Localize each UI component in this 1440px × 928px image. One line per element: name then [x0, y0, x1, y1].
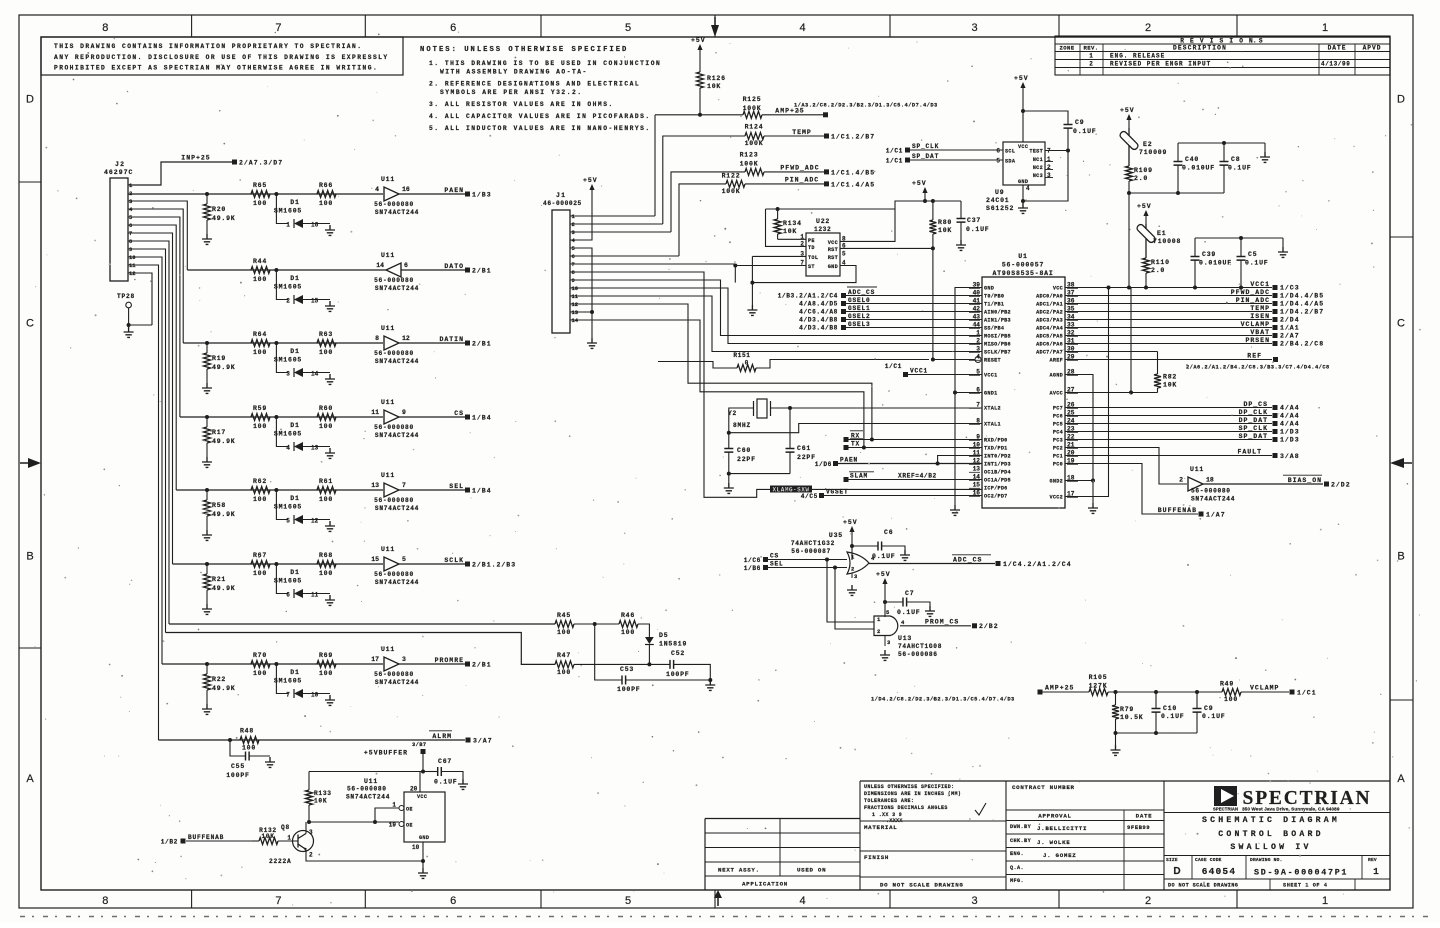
svg-text:3: 3 — [976, 346, 980, 353]
svg-text:10K: 10K — [783, 228, 797, 235]
net SLAM to U1 pin14 — [844, 477, 849, 482]
svg-text:0.1UF: 0.1UF — [434, 779, 458, 786]
svg-text:56-000080: 56-000080 — [374, 571, 414, 578]
svg-text:0.1UF: 0.1UF — [1228, 165, 1252, 172]
svg-text:1. THIS DRAWING IS TO BE USED: 1. THIS DRAWING IS TO BE USED IN CONJUNC… — [429, 60, 661, 67]
svg-text:127K: 127K — [1089, 683, 1108, 690]
net BIAS_ON off-page — [1203, 483, 1323, 485]
svg-text:C: C — [1397, 318, 1405, 330]
svg-text:1/C4.2/A1.2/C4: 1/C4.2/A1.2/C4 — [1003, 561, 1072, 568]
svg-text:3: 3 — [402, 656, 406, 663]
ground R58 — [202, 530, 212, 540]
svg-text:SWALLOW IV: SWALLOW IV — [1230, 843, 1311, 852]
svg-text:J. GOMEZ: J. GOMEZ — [1043, 852, 1076, 859]
svg-text:1/C3: 1/C3 — [1280, 285, 1300, 292]
net VCC1 off-page right — [1065, 287, 1272, 289]
svg-text:PFWD_ADC: PFWD_ADC — [780, 165, 819, 172]
svg-text:2/B1: 2/B1 — [472, 662, 492, 669]
svg-text:56-000087: 56-000087 — [791, 548, 831, 555]
svg-text:PROMRE: PROMRE — [435, 657, 464, 664]
ground C67 — [458, 779, 468, 789]
svg-text:R63: R63 — [319, 331, 333, 338]
net SP_DAT off-page right — [1065, 439, 1272, 441]
svg-text:4/A4: 4/A4 — [1280, 421, 1300, 428]
svg-text:74AHCT1G32: 74AHCT1G32 — [791, 540, 835, 547]
svg-text:R67: R67 — [253, 552, 267, 559]
wire J1 pin10 to MISO — [570, 288, 982, 344]
resistor R63 series — [317, 340, 336, 347]
svg-text:DRAWING NO.: DRAWING NO. — [1250, 857, 1283, 863]
diode D1 4/13 — [274, 415, 278, 419]
wire to R45 — [169, 623, 555, 625]
capacitor C52 — [670, 660, 674, 669]
svg-text:1/B4: 1/B4 — [472, 415, 492, 422]
ground R21 — [202, 604, 212, 614]
wire pullup rail — [698, 113, 702, 117]
svg-text:13: 13 — [572, 309, 579, 316]
svg-text:2: 2 — [309, 852, 313, 859]
diode D1 5/12 — [274, 488, 278, 492]
svg-text:56-000080: 56-000080 — [374, 424, 414, 431]
svg-text:100: 100 — [253, 200, 267, 207]
net XLAMG strikethrough label on ICP wire — [768, 488, 982, 490]
svg-text:100: 100 — [242, 745, 256, 752]
resistor R122 — [679, 184, 726, 256]
capacitor C8 — [1223, 143, 1225, 161]
title application table — [779, 819, 781, 877]
svg-text:16: 16 — [311, 222, 319, 229]
wire XTAL2 net — [771, 407, 983, 409]
svg-text:0.1UF: 0.1UF — [1073, 128, 1097, 135]
wire AVCC riser to VCC rail — [1130, 288, 1132, 393]
svg-text:6: 6 — [286, 592, 290, 599]
ground C39/C5 — [1282, 238, 1284, 247]
svg-text:DO NOT SCALE DRAWING: DO NOT SCALE DRAWING — [880, 882, 964, 889]
svg-text:9: 9 — [572, 277, 575, 284]
wire U9 TEST pin7 — [1045, 150, 1068, 152]
svg-text:AMP+25: AMP+25 — [775, 108, 804, 115]
svg-text:2.0: 2.0 — [1134, 175, 1148, 182]
svg-text:R49: R49 — [1220, 681, 1234, 688]
svg-text:24C01: 24C01 — [986, 197, 1010, 204]
svg-text:+5V: +5V — [912, 180, 927, 187]
svg-text:1/C1.2/B7: 1/C1.2/B7 — [831, 134, 875, 141]
wire C40/C8 top rail — [1178, 142, 1265, 144]
capacitor C9 filter — [1196, 692, 1198, 708]
svg-text:10.5K: 10.5K — [1120, 714, 1144, 721]
svg-text:TX: TX — [851, 441, 860, 448]
svg-text:12: 12 — [129, 270, 136, 277]
svg-text:U11: U11 — [381, 546, 395, 553]
wire C53 branch — [595, 624, 622, 680]
svg-text:100: 100 — [253, 496, 267, 503]
svg-text:SP_CLK: SP_CLK — [1239, 425, 1268, 432]
svg-text:11: 11 — [129, 262, 136, 269]
svg-text:2222A: 2222A — [269, 858, 292, 865]
svg-text:100K: 100K — [722, 188, 741, 195]
svg-text:3: 3 — [309, 829, 313, 836]
svg-text:A: A — [1397, 773, 1405, 785]
wire buffer row SCLK — [173, 563, 384, 565]
svg-text:DO NOT SCALE DRAWING: DO NOT SCALE DRAWING — [1168, 883, 1238, 889]
svg-text:D1: D1 — [290, 422, 299, 429]
svg-text:2: 2 — [877, 628, 880, 635]
net DP_CS off-page right — [1065, 407, 1272, 409]
svg-text:SP_CLK: SP_CLK — [912, 143, 939, 150]
resistor R67 series — [251, 561, 270, 568]
wire AGND pin28 — [1065, 375, 1093, 481]
svg-text:ZONE: ZONE — [1059, 45, 1074, 52]
svg-text:R64: R64 — [253, 331, 267, 338]
resistor R65 series — [251, 191, 270, 198]
svg-text:ADC_CS: ADC_CS — [953, 557, 982, 564]
svg-text:ALRM: ALRM — [432, 733, 452, 740]
svg-text:13: 13 — [311, 445, 319, 452]
svg-text:1: 1 — [1322, 22, 1328, 34]
capacitor C9 bypass — [1023, 111, 1068, 124]
svg-text:J.BELLICITTI: J.BELLICITTI — [1037, 825, 1087, 832]
net ISEN off-page right — [1065, 319, 1272, 321]
net ADC_CS output — [869, 563, 995, 565]
resistor R66 series — [317, 191, 336, 198]
svg-text:J1: J1 — [556, 192, 566, 199]
svg-text:R46: R46 — [621, 612, 635, 619]
svg-text:SM1605: SM1605 — [274, 284, 302, 291]
capacitor C40 — [1177, 143, 1179, 161]
svg-text:R E V I S I O N S: R E V I S I O N S — [1180, 38, 1264, 45]
svg-text:5: 5 — [625, 22, 631, 34]
svg-text:U11: U11 — [381, 325, 395, 332]
svg-text:PIN_ADC: PIN_ADC — [785, 177, 819, 184]
ground D1 — [325, 374, 335, 384]
svg-text:R109: R109 — [1134, 167, 1153, 174]
svg-text:TXD/PD1: TXD/PD1 — [984, 446, 1008, 452]
U9 NC pin stubs — [1045, 161, 1053, 163]
svg-text:49.9K: 49.9K — [212, 438, 236, 445]
ground D1 — [325, 448, 335, 458]
svg-text:+5V: +5V — [1120, 107, 1135, 114]
wire ADC7 row to R82 — [1065, 351, 1158, 353]
svg-text:R82: R82 — [1163, 374, 1177, 381]
svg-text:49.9K: 49.9K — [212, 511, 236, 518]
title number row — [1164, 855, 1390, 857]
svg-text:TOLERANCES ARE:: TOLERANCES ARE: — [864, 798, 914, 804]
svg-text:ADC7/PA7: ADC7/PA7 — [1036, 350, 1063, 356]
svg-text:OC1B/PD4: OC1B/PD4 — [984, 470, 1011, 476]
wire rail to R80/C37 — [895, 201, 961, 209]
svg-text:TEST: TEST — [1029, 149, 1043, 155]
svg-text:100: 100 — [253, 423, 267, 430]
ground filter — [1115, 733, 1117, 745]
svg-text:+5V: +5V — [583, 177, 598, 184]
svg-text:56-000080: 56-000080 — [374, 671, 414, 678]
svg-text:2/A6.2/A1.2/B4.2/C8.3/B3.3/C7.: 2/A6.2/A1.2/B4.2/C8.3/B3.3/C7.4/D4.4/C8 — [1186, 365, 1330, 371]
svg-text:ADC0/PA0: ADC0/PA0 — [1036, 294, 1063, 300]
wire U22 RST pin6 — [840, 247, 933, 249]
svg-text:T0/PB0: T0/PB0 — [984, 294, 1004, 300]
wire J2 pin6 fanout — [128, 225, 176, 490]
wire RESET net — [932, 248, 934, 359]
svg-text:TEMP: TEMP — [1250, 305, 1270, 312]
svg-text:2/B4.2/C8: 2/B4.2/C8 — [1280, 341, 1324, 348]
svg-text:B: B — [26, 551, 33, 563]
wire J1 pin1 to R125 rail — [570, 215, 655, 217]
svg-text:74AHCT1G08: 74AHCT1G08 — [898, 643, 942, 650]
svg-text:R61: R61 — [319, 478, 333, 485]
svg-text:C53: C53 — [620, 666, 634, 673]
net FAULT off-page right — [1065, 455, 1272, 457]
buffer U11 SEL — [384, 483, 399, 497]
svg-text:R58: R58 — [212, 502, 226, 509]
wire SEL to U13 input2 — [835, 568, 874, 630]
or-gate U35 — [847, 552, 869, 574]
svg-text:2/A7: 2/A7 — [1280, 333, 1300, 340]
svg-text:1/B6: 1/B6 — [744, 565, 761, 572]
svg-text:46-000025: 46-000025 — [543, 200, 582, 207]
net AMP+25 input — [1038, 690, 1043, 695]
svg-text:ENG. RELEASE: ENG. RELEASE — [1110, 53, 1165, 60]
resistor R70 series — [251, 661, 270, 668]
crystal Y2 8MHZ — [757, 399, 767, 418]
svg-text:OC1A/PD5: OC1A/PD5 — [984, 478, 1011, 484]
wire U1 GND pin39 — [955, 288, 982, 506]
scan artifact bottom edge — [20, 916, 1432, 918]
ground C37 — [956, 240, 966, 250]
svg-text:R79: R79 — [1120, 706, 1134, 713]
svg-text:13: 13 — [973, 466, 981, 473]
svg-text:R70: R70 — [253, 652, 267, 659]
svg-text:100: 100 — [319, 349, 333, 356]
svg-text:49.9K: 49.9K — [212, 585, 236, 592]
wire J1 pin2 to R124 — [570, 223, 663, 225]
svg-text:SIZE: SIZE — [1166, 857, 1178, 863]
svg-text:0.010UF: 0.010UF — [1199, 260, 1232, 267]
svg-text:VCC: VCC — [828, 240, 838, 246]
svg-text:SN74ACT244: SN74ACT244 — [375, 679, 419, 686]
resistor R46 — [619, 621, 638, 628]
svg-text:R105: R105 — [1089, 674, 1108, 681]
svg-text:10K: 10K — [707, 83, 721, 90]
svg-text:4/A8.4/D5: 4/A8.4/D5 — [799, 301, 838, 308]
wire Q8 collector — [305, 822, 307, 834]
svg-text:R47: R47 — [557, 652, 571, 659]
buffer U11 SCLK — [384, 557, 399, 571]
wire J2 pin8 fanout — [128, 241, 169, 624]
ground C55 — [265, 757, 275, 767]
capacitor C10 — [1155, 692, 1157, 708]
svg-text:+5V: +5V — [1014, 75, 1029, 82]
svg-text:SM1605: SM1605 — [274, 208, 302, 215]
svg-text:INT1/PD3: INT1/PD3 — [984, 462, 1011, 468]
svg-text:15: 15 — [311, 298, 319, 305]
resistor R133 — [308, 772, 310, 791]
wire J2 pin7 fanout — [128, 233, 173, 564]
svg-text:1/C1.4/B5: 1/C1.4/B5 — [831, 169, 875, 176]
svg-text:1/C1: 1/C1 — [885, 363, 902, 370]
svg-text:SHEET 1 OF 4: SHEET 1 OF 4 — [1283, 883, 1328, 889]
svg-text:56-000080: 56-000080 — [374, 497, 414, 504]
buffer U11 PAEN — [384, 187, 399, 201]
wire J1 pin7 to U22 ST — [570, 263, 735, 265]
svg-text:R48: R48 — [240, 728, 254, 735]
wire C60/C61 ground rail — [729, 473, 790, 475]
svg-text:100: 100 — [1224, 696, 1238, 703]
svg-text:ISEN: ISEN — [1250, 313, 1270, 320]
svg-text:100PF: 100PF — [617, 686, 641, 693]
svg-text:R126: R126 — [707, 75, 726, 82]
wire J1 pin11 to SCLK — [570, 296, 982, 352]
wire INT0 stub — [938, 456, 982, 464]
U1 RESET pin circle — [975, 357, 981, 363]
svg-text:SN74ACT244: SN74ACT244 — [375, 432, 419, 439]
svg-text:2/B1: 2/B1 — [472, 341, 492, 348]
svg-text:7: 7 — [572, 261, 575, 268]
svg-text:56-000080: 56-000080 — [374, 201, 414, 208]
resistor R22 pulldown — [205, 662, 209, 666]
svg-text:SP_DAT: SP_DAT — [912, 153, 939, 160]
svg-text:6: 6 — [404, 262, 408, 269]
svg-text:+5V: +5V — [1137, 203, 1152, 210]
svg-text:J. WOLKE: J. WOLKE — [1037, 839, 1070, 846]
svg-text:7: 7 — [129, 230, 132, 237]
capacitor C7 — [884, 592, 886, 617]
svg-text:49.9K: 49.9K — [212, 364, 236, 371]
svg-text:7: 7 — [286, 692, 290, 699]
svg-text:2: 2 — [1089, 61, 1093, 68]
svg-text:100PF: 100PF — [226, 772, 250, 779]
wire U22 GND pin4 — [752, 256, 856, 282]
svg-text:PC2: PC2 — [1053, 446, 1063, 452]
svg-text:1: 1 — [286, 222, 290, 229]
svg-text:PAEN: PAEN — [444, 187, 464, 194]
net PIN_ADC off-page right — [1065, 303, 1272, 305]
svg-text:AIN0/PB2: AIN0/PB2 — [984, 310, 1011, 316]
svg-text:7: 7 — [402, 482, 406, 489]
revisions table — [1055, 36, 1390, 75]
svg-text:D1: D1 — [290, 275, 299, 282]
svg-text:R133: R133 — [314, 790, 332, 797]
buffer U11 CS — [384, 410, 399, 424]
svg-text:D5: D5 — [659, 632, 668, 639]
resistor R80 — [932, 201, 934, 220]
svg-text:SN74ACT244: SN74ACT244 — [375, 505, 419, 512]
wire U22 TOL pin3 — [752, 255, 806, 257]
capacitor C5 — [1240, 238, 1242, 256]
svg-text:R69: R69 — [319, 652, 333, 659]
svg-text:VCC1: VCC1 — [984, 373, 997, 379]
svg-text:100PF: 100PF — [666, 671, 690, 678]
resistor R60 series — [317, 414, 336, 421]
inductor E1 710008 — [1136, 223, 1157, 244]
svg-text:R59: R59 — [253, 405, 267, 412]
wire J2 pin4 fanout — [128, 209, 183, 343]
svg-text:9: 9 — [129, 246, 132, 253]
wire J1 pin8 to ICP net — [570, 272, 768, 497]
svg-text:100: 100 — [253, 670, 267, 677]
svg-text:100K: 100K — [743, 105, 762, 112]
svg-text:ADC4/PA4: ADC4/PA4 — [1036, 326, 1063, 332]
svg-text:1: 1 — [976, 330, 980, 337]
svg-text:0.1UF: 0.1UF — [1202, 713, 1226, 720]
svg-text:+5VBUFFER: +5VBUFFER — [364, 750, 408, 757]
svg-text:D1: D1 — [290, 348, 299, 355]
wire RESET to U1 pin4 — [933, 359, 975, 361]
svg-text:SM1605: SM1605 — [274, 357, 302, 364]
svg-text:MFG.: MFG. — [1010, 878, 1024, 884]
power +5V U9 — [1022, 88, 1024, 96]
ground U1 GND — [950, 505, 960, 515]
svg-text:0: 0 — [745, 360, 749, 367]
svg-text:2: 2 — [286, 298, 290, 305]
svg-text:4/A4: 4/A4 — [1280, 405, 1300, 412]
svg-text:AGND: AGND — [1050, 373, 1063, 379]
svg-text:PAEN: PAEN — [840, 457, 858, 464]
svg-text:PRSEN: PRSEN — [1245, 337, 1270, 344]
svg-text:SN74ACT244: SN74ACT244 — [375, 285, 419, 292]
svg-text:R110: R110 — [1151, 259, 1170, 266]
connector J1 — [552, 210, 570, 333]
resistor R19 pulldown — [205, 341, 209, 345]
svg-text:6: 6 — [572, 253, 575, 260]
svg-text:PC0: PC0 — [1053, 462, 1063, 468]
svg-text:SN74ACT244: SN74ACT244 — [346, 794, 390, 801]
svg-text:56-000057: 56-000057 — [1002, 262, 1044, 269]
svg-text:5: 5 — [402, 556, 406, 563]
ground R20 — [202, 234, 212, 244]
svg-text:NOTES: UNLESS OTHERWISE SPECIF: NOTES: UNLESS OTHERWISE SPECIFIED — [420, 46, 628, 54]
svg-text:100: 100 — [319, 670, 333, 677]
net VBAT off-page right — [1065, 335, 1272, 337]
net TEMP off-page right — [1065, 311, 1272, 313]
svg-text:NEXT ASSY.: NEXT ASSY. — [718, 867, 760, 874]
ground R22 — [202, 704, 212, 714]
svg-text:+5V: +5V — [876, 571, 891, 578]
svg-text:ENG.: ENG. — [1010, 851, 1024, 857]
wire buffer row DATIN — [183, 342, 383, 344]
svg-text:10: 10 — [412, 844, 420, 851]
svg-text:U13: U13 — [898, 635, 912, 642]
ground D1 — [325, 521, 335, 531]
svg-text:1: 1 — [1089, 53, 1093, 60]
svg-text:D1: D1 — [290, 495, 299, 502]
svg-text:100: 100 — [557, 629, 571, 636]
resistor R58 pulldown — [205, 488, 209, 492]
IC U11 power pins — [404, 792, 445, 842]
svg-text:1/C1.4/A5: 1/C1.4/A5 — [831, 181, 875, 188]
svg-text:XTAL2: XTAL2 — [984, 406, 1001, 412]
svg-text:100: 100 — [621, 629, 635, 636]
net BUFFENAB off-page — [1065, 464, 1198, 515]
svg-text:U11: U11 — [364, 778, 378, 785]
svg-text:XREF=4/B2: XREF=4/B2 — [898, 473, 937, 480]
inductor E2 710009 — [1119, 130, 1140, 151]
svg-text:100: 100 — [319, 496, 333, 503]
svg-text:C9: C9 — [1204, 705, 1213, 712]
buffer U11 BIAS_ON — [1065, 448, 1187, 485]
capacitor C39 — [1194, 238, 1196, 256]
svg-text:2: 2 — [1145, 22, 1151, 34]
wire +5V rail to U1 VCC — [1128, 193, 1130, 288]
svg-text:SCL: SCL — [1005, 149, 1015, 155]
svg-text:SEL: SEL — [770, 561, 784, 568]
resistor R20 pulldown — [205, 192, 209, 196]
wire U22 VCC pin8 — [840, 209, 895, 241]
svg-text:2/B1: 2/B1 — [472, 268, 492, 275]
svg-text:FINISH: FINISH — [864, 854, 889, 861]
svg-text:D1: D1 — [290, 669, 299, 676]
svg-text:4: 4 — [1026, 185, 1030, 192]
wire U22 ST pin7 — [735, 265, 806, 267]
